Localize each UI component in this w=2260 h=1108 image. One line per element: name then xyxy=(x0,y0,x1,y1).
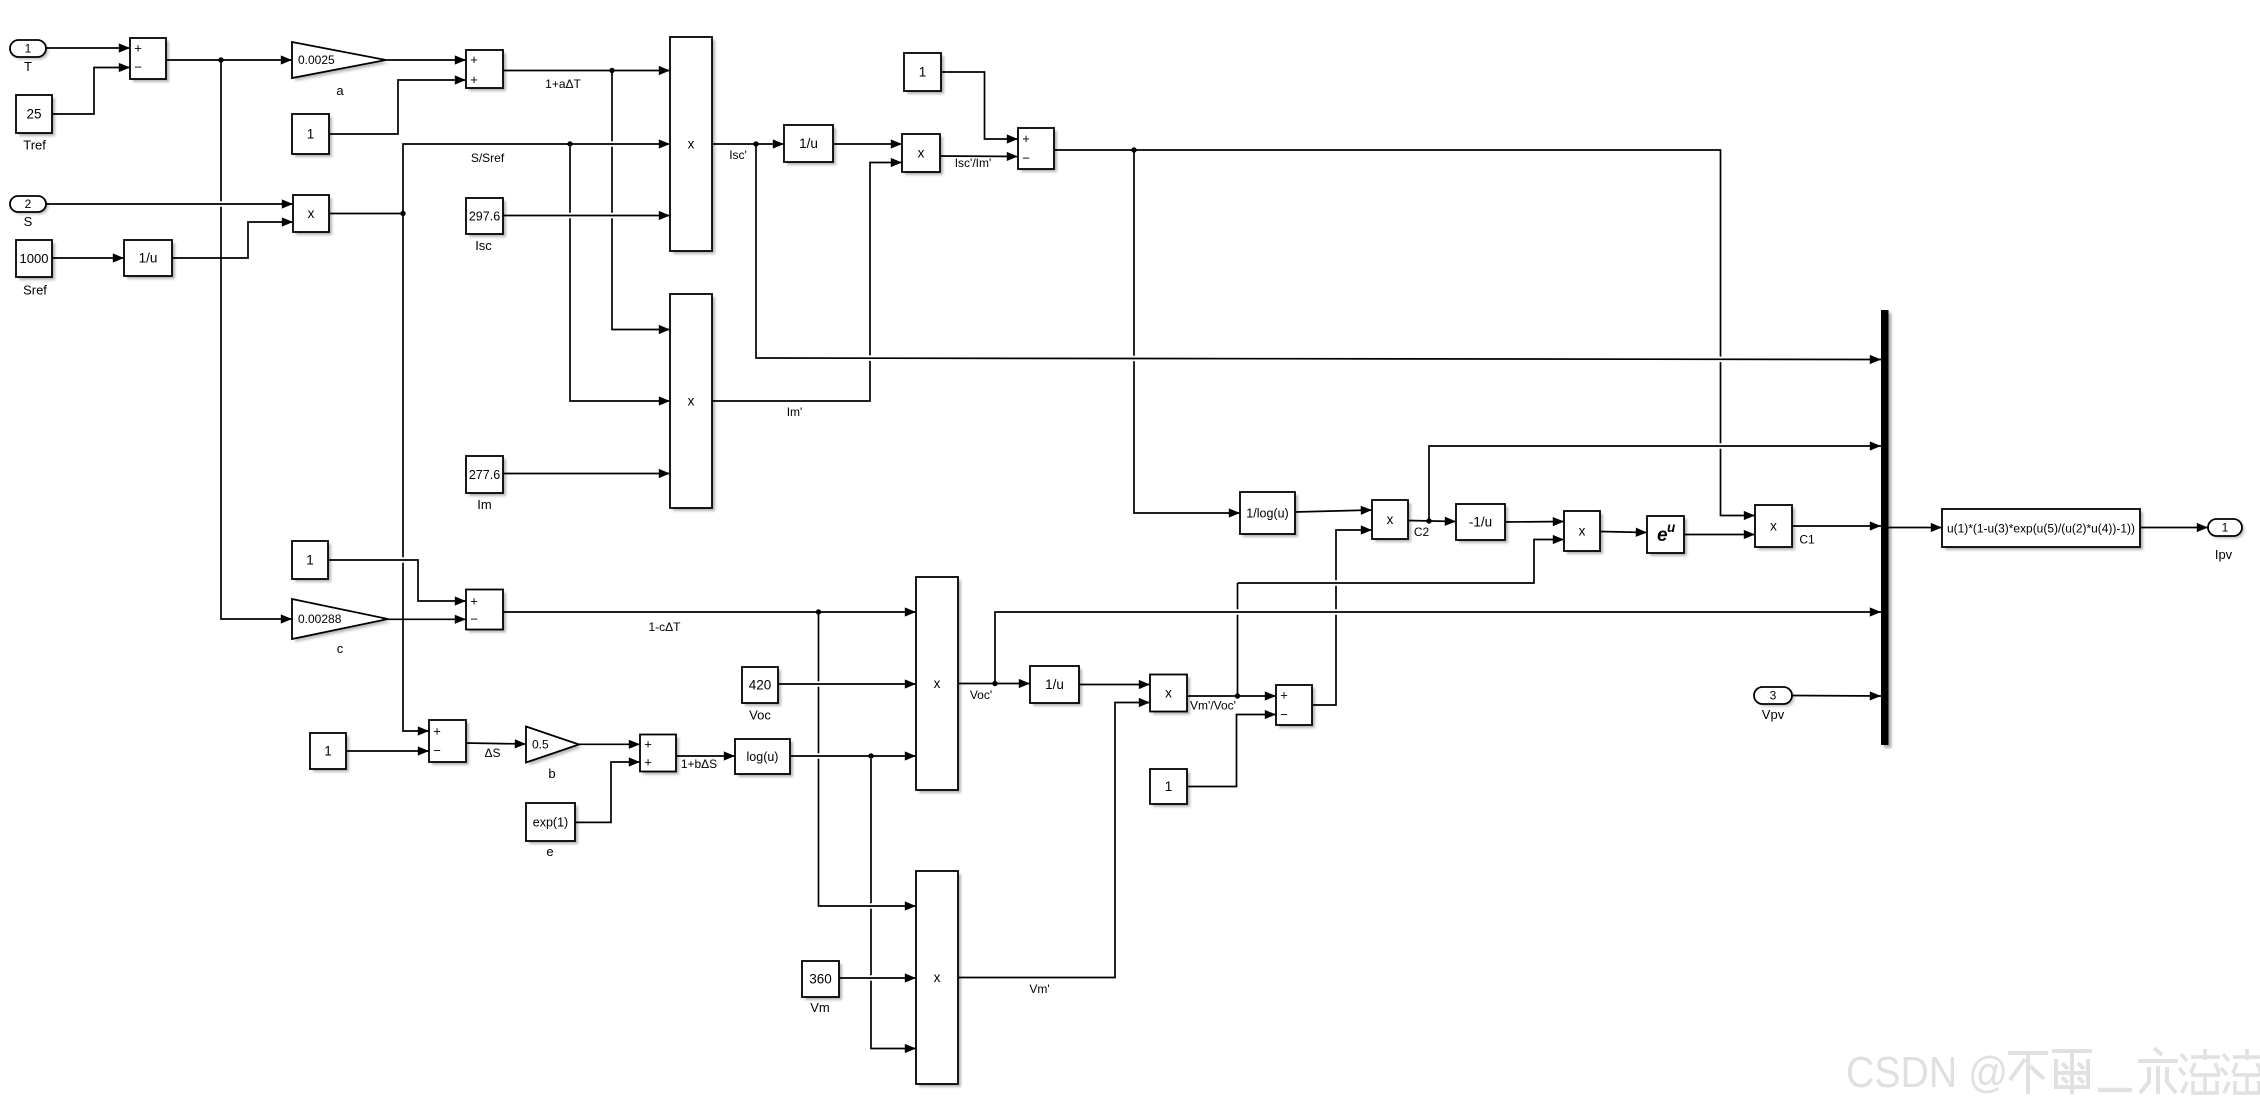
wire product to e^u xyxy=(1600,532,1647,533)
svg-text:−: − xyxy=(470,612,478,627)
wire Sum4 to product Voc-prime xyxy=(503,611,916,613)
wire 1/log(u) to product C2 xyxy=(1295,510,1372,512)
wire product S/Sref out xyxy=(329,213,403,215)
svg-text:0.0025: 0.0025 xyxy=(298,53,335,67)
svg-text:1/u: 1/u xyxy=(1045,677,1064,692)
svg-text:−: − xyxy=(1022,151,1030,166)
wire log(u) branch to product Vm-prime xyxy=(871,756,916,1049)
svg-text:1+bΔS: 1+bΔS xyxy=(681,757,717,771)
gain a 0.0025 xyxy=(295,45,389,81)
svg-text:x: x xyxy=(1165,686,1172,701)
sum Sum7 1-Vm/Voc xyxy=(1279,688,1315,728)
product Voc-prime tall xyxy=(919,580,961,793)
node S/Sref junction 2 xyxy=(567,141,572,146)
svg-text:+: + xyxy=(470,594,478,609)
reciprocal 1/u Voc-prime xyxy=(1033,669,1082,706)
svg-text:Voc': Voc' xyxy=(970,688,992,702)
svg-text:T: T xyxy=(24,59,32,74)
node log(u) junction xyxy=(868,753,873,758)
svg-text:Isc'/Im': Isc'/Im' xyxy=(955,156,992,170)
wire Tref to Sum1 xyxy=(52,68,130,115)
wire Vpv to mux xyxy=(1792,695,1881,698)
svg-text:297.6: 297.6 xyxy=(469,209,500,223)
node dT junction xyxy=(218,57,223,62)
svg-text:b: b xyxy=(548,766,555,781)
svg-text:Vm: Vm xyxy=(810,1000,830,1015)
wire Isc to product Isc-prime xyxy=(507,213,661,219)
wire const1 to Sum5 xyxy=(346,750,429,752)
svg-text:Ipv: Ipv xyxy=(2215,547,2233,562)
svg-text:e: e xyxy=(546,844,553,859)
wire Isc-prime branch to mux xyxy=(756,148,1872,359)
sum Sum2 1+aDT xyxy=(469,53,506,91)
wire product Isc-prime to 1/u xyxy=(712,143,784,145)
constant Tref 25 xyxy=(19,98,55,136)
product Isc-prime tall xyxy=(673,40,715,254)
svg-text:Isc': Isc' xyxy=(729,148,747,162)
svg-text:C2: C2 xyxy=(1414,525,1430,539)
svg-text:Im': Im' xyxy=(787,405,803,419)
svg-text:0.00288: 0.00288 xyxy=(298,612,342,626)
sum Sum3 1-Isc/Im xyxy=(1021,131,1057,172)
svg-text:S/Sref: S/Sref xyxy=(471,151,505,165)
svg-text:1-cΔT: 1-cΔT xyxy=(648,620,681,634)
constant Im 277.6 xyxy=(469,459,506,496)
wire Voc-prime branch to mux xyxy=(995,612,1872,680)
outport 1 Ipv xyxy=(2211,522,2245,539)
svg-text:1: 1 xyxy=(25,42,32,56)
wire e^u to product C1 xyxy=(1684,534,1755,536)
wire product Vm/Voc to Sum7 xyxy=(1187,695,1276,697)
math log(u) xyxy=(738,742,793,777)
svg-text:+: + xyxy=(470,72,478,87)
svg-text:Vpv: Vpv xyxy=(1762,707,1785,722)
svg-text:+: + xyxy=(644,737,652,752)
svg-text:+: + xyxy=(1280,688,1288,703)
reciprocal 1/u Isc-prime xyxy=(787,128,836,165)
node Voc-prime junction xyxy=(992,681,997,686)
svg-text:0.5: 0.5 xyxy=(532,738,549,752)
wire Vm/Voc branch to product xyxy=(1242,540,1556,584)
wire -1/u to product xyxy=(1505,521,1564,524)
sum Sum6 1+bDS xyxy=(643,738,679,775)
svg-text:x: x xyxy=(1579,524,1586,539)
svg-text:Vm': Vm' xyxy=(1029,982,1049,996)
svg-text:+: + xyxy=(433,724,441,739)
wire Sum7 up to product C2 xyxy=(1313,530,1372,705)
wire mux to fcn xyxy=(1889,527,1943,529)
wire Sum3 out long to product C1 xyxy=(1054,150,1755,516)
wire Sum2 to product Isc-prime xyxy=(503,70,670,72)
wire S/Sref up to product Isc-prime xyxy=(403,144,661,210)
wire log(u) to product Voc-prime xyxy=(794,753,907,759)
svg-text:1: 1 xyxy=(307,127,315,142)
wire Sum1 to gain a xyxy=(166,59,292,61)
svg-text:a: a xyxy=(336,83,344,98)
node S/Sref junction xyxy=(400,211,405,216)
wire Im to product Im-prime xyxy=(503,473,670,475)
wire Voc-prime to 1/u xyxy=(958,683,1030,685)
svg-text:u: u xyxy=(1667,520,1676,535)
wire Vm to product Vm-prime xyxy=(843,975,907,981)
wire Sref to 1/u xyxy=(52,257,124,259)
svg-text:−: − xyxy=(1280,707,1288,722)
svg-text:1000: 1000 xyxy=(20,251,49,266)
wire Sum6 to log(u) xyxy=(676,755,735,757)
wire C2 branch to mux xyxy=(1429,446,1872,517)
svg-text:420: 420 xyxy=(749,678,772,693)
node Isc-prime junction xyxy=(753,141,758,146)
svg-text:360: 360 xyxy=(809,972,832,987)
wire 1-cDT branch to product Vm-prime xyxy=(819,616,908,906)
constant Voc 420 xyxy=(745,670,781,706)
wire 1/u to product S/Sref xyxy=(172,222,293,258)
inport 1 T xyxy=(13,43,49,60)
node Sum3 out junction xyxy=(1131,147,1136,152)
gain b 0.5 xyxy=(529,730,582,766)
svg-text:Sref: Sref xyxy=(23,283,47,298)
svg-text:x: x xyxy=(688,394,695,409)
svg-text:1/u: 1/u xyxy=(799,136,818,151)
reciprocal 1/u Sref xyxy=(127,243,175,279)
wire S/Sref branch to product Im-prime xyxy=(570,144,670,401)
svg-text:CSDN @: CSDN @ xyxy=(1846,1048,2008,1097)
svg-text:Voc: Voc xyxy=(749,708,771,723)
wire product C2 to -1/u xyxy=(1408,521,1456,522)
fcn block Ipv formula xyxy=(1945,512,2143,550)
wire Vm-prime up to product Vm/Voc xyxy=(958,703,1150,978)
constant Vm 360 xyxy=(805,964,842,1000)
svg-text:x: x xyxy=(934,970,941,985)
sum Sum1 T-Tref xyxy=(133,41,169,82)
wire const1 to Sum4 xyxy=(332,560,457,601)
constant 1 (1+aDT) xyxy=(295,117,332,157)
node Vm/Voc junction xyxy=(1235,693,1240,698)
svg-text:−: − xyxy=(134,60,142,75)
product x (C2 exponent) xyxy=(1567,514,1603,554)
svg-text:Isc: Isc xyxy=(475,238,492,253)
svg-text:−: − xyxy=(433,743,441,758)
math e^u xyxy=(1650,519,1687,556)
wire gain a to Sum2 xyxy=(386,59,466,61)
product S/Sref x xyxy=(296,198,332,235)
svg-text:x: x xyxy=(688,137,695,152)
inport 2 S xyxy=(13,199,49,215)
product C2 x xyxy=(1375,503,1411,542)
svg-text:S: S xyxy=(24,214,33,229)
svg-text:u(1)*(1-u(3)*exp(u(5)/(u(2)*u(: u(1)*(1-u(3)*exp(u(5)/(u(2)*u(4))-1)) xyxy=(1947,524,2135,536)
node 1-cDT junction xyxy=(816,609,821,614)
mux 5-input xyxy=(1884,313,1892,748)
wire S to product xyxy=(50,201,284,207)
node 1+aDT junction xyxy=(609,68,614,73)
wire 1/u to product Isc/Im xyxy=(833,143,902,145)
constant 1 (sum7) xyxy=(1153,772,1190,807)
watermark CSDN xyxy=(1846,1048,2260,1097)
svg-text:25: 25 xyxy=(26,107,41,122)
gain c 0.00288 xyxy=(295,602,391,642)
svg-text:3: 3 xyxy=(1770,689,1777,703)
wire product Isc/Im to Sum3 xyxy=(940,155,1018,158)
svg-text:1+aΔT: 1+aΔT xyxy=(545,77,581,91)
wire const1 to Sum3 xyxy=(941,72,1018,139)
svg-text:1/u: 1/u xyxy=(139,251,158,266)
wire 1+aDT branch to product Im-prime xyxy=(612,71,670,330)
node C2 junction xyxy=(1426,518,1431,523)
svg-text:log(u): log(u) xyxy=(747,750,779,764)
constant 1 (DS) xyxy=(313,736,349,772)
svg-text:1: 1 xyxy=(2222,521,2229,535)
sum Sum4 1-cDT xyxy=(469,593,506,633)
product C1 x xyxy=(1758,508,1795,550)
math 1/log(u) xyxy=(1243,495,1298,537)
wire Sum5 to gain b xyxy=(466,743,526,744)
wire gain c to Sum4 xyxy=(388,618,466,620)
wire exp(1) to Sum6 xyxy=(575,762,640,822)
product Vm-prime tall xyxy=(919,874,961,1087)
svg-text:+: + xyxy=(644,755,652,770)
wire 1/u to product Vm/Voc xyxy=(1079,684,1150,686)
wire dT branch to gain c xyxy=(221,60,292,619)
svg-text:ΔS: ΔS xyxy=(484,746,500,760)
svg-text:1: 1 xyxy=(1165,779,1173,794)
svg-text:1: 1 xyxy=(324,744,332,759)
product Vm/Voc x xyxy=(1153,678,1190,715)
math -1/u xyxy=(1459,507,1508,543)
wire fcn to outport Ipv xyxy=(2140,527,2208,529)
wire Voc to product Voc-prime xyxy=(782,681,907,687)
svg-text:1: 1 xyxy=(306,553,314,568)
inport 3 Vpv xyxy=(1757,690,1795,707)
product Isc/Im x xyxy=(905,137,943,175)
svg-text:Im: Im xyxy=(477,497,491,512)
wire const1 to Sum2 xyxy=(329,80,466,134)
svg-text:x: x xyxy=(308,206,315,221)
constant 1 (sum3) xyxy=(907,56,944,94)
wire Sum3 branch to 1/log(u) xyxy=(1134,150,1240,513)
wire T to Sum1 xyxy=(46,47,130,49)
svg-text:x: x xyxy=(934,676,941,691)
svg-text:2: 2 xyxy=(25,197,32,211)
svg-text:x: x xyxy=(1770,519,1777,534)
svg-text:+: + xyxy=(134,41,142,56)
math exp(1) xyxy=(529,806,578,844)
wire gain b to Sum6 xyxy=(579,743,640,745)
svg-text:+: + xyxy=(1022,131,1030,146)
wire Im-prime to product Isc/Im xyxy=(712,163,902,402)
wire S/Sref down to Sum5 xyxy=(403,214,429,732)
svg-text:c: c xyxy=(337,641,344,656)
sum Sum5 DS xyxy=(432,723,469,765)
svg-text:277.6: 277.6 xyxy=(469,468,500,482)
svg-text:x: x xyxy=(1387,512,1394,527)
svg-text:-1/u: -1/u xyxy=(1469,515,1492,530)
svg-text:exp(1): exp(1) xyxy=(533,815,568,829)
wire const1 to Sum7 xyxy=(1187,715,1276,787)
constant Isc 297.6 xyxy=(469,201,506,237)
svg-text:x: x xyxy=(918,146,925,161)
svg-text:Tref: Tref xyxy=(23,138,46,153)
product Im-prime tall xyxy=(673,297,715,511)
wire product C1 to mux xyxy=(1792,525,1881,527)
constant Sref 1000 xyxy=(19,243,55,280)
svg-text:Vm'/Voc': Vm'/Voc' xyxy=(1190,699,1236,713)
svg-text:+: + xyxy=(470,52,478,67)
wire Vm/Voc branch vertical xyxy=(1237,583,1239,696)
svg-text:1: 1 xyxy=(919,65,927,80)
svg-text:C1: C1 xyxy=(1799,533,1815,547)
svg-text:1/log(u): 1/log(u) xyxy=(1246,506,1288,520)
constant 1 (1-cDT) xyxy=(295,544,331,582)
